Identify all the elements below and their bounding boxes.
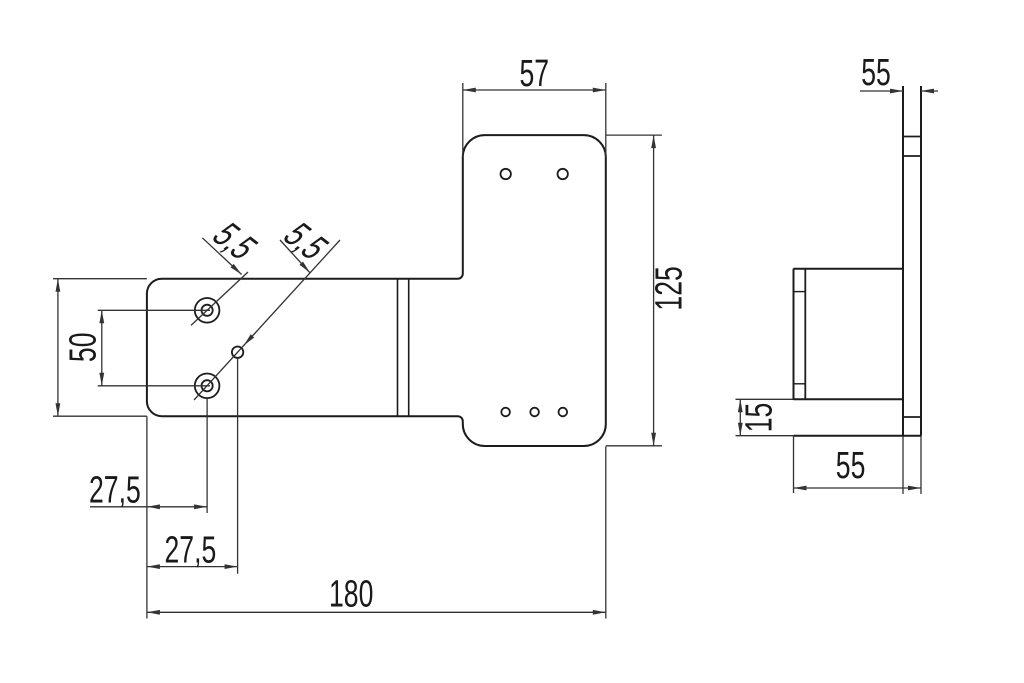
svg-text:57: 57 xyxy=(520,51,550,94)
svg-text:15: 15 xyxy=(737,403,780,433)
svg-text:180: 180 xyxy=(329,572,373,615)
svg-text:27,5: 27,5 xyxy=(165,528,217,571)
svg-text:50: 50 xyxy=(61,333,104,363)
svg-text:125: 125 xyxy=(647,266,690,310)
svg-text:55: 55 xyxy=(836,443,866,486)
svg-text:55: 55 xyxy=(861,50,891,93)
svg-text:27,5: 27,5 xyxy=(89,468,141,511)
